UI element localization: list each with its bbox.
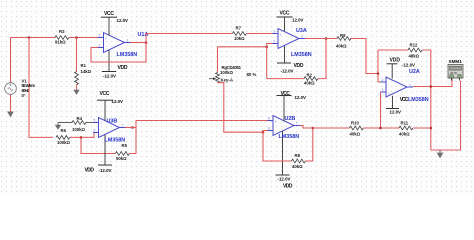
resistor R1 [75,72,79,85]
svg-text:-12.0V: -12.0V [99,168,112,173]
svg-text:48kΩ: 48kΩ [409,53,420,58]
wire main input horizontal [11,37,56,39]
wire XMM1 right pin down to ground row [431,81,461,151]
multimeter XMM1 [448,65,463,81]
wire pot top lead down [217,47,219,73]
svg-text:100kΩ: 100kΩ [220,70,234,75]
wire R12 left lead vertical to U2A inverting input [377,50,379,82]
wire U2A output to XMM1 [413,79,452,87]
power VDD of U3B [98,164,112,166]
svg-text:7: 7 [296,121,298,125]
wire R7 to U3A input [247,33,273,35]
ground at bottom right [437,150,444,158]
svg-text:U3B: U3B [107,119,118,125]
svg-text:LM358N: LM358N [291,52,312,58]
svg-text:1: 1 [409,83,411,87]
svg-text:6: 6 [268,126,270,130]
wire ground to R4 [58,122,72,124]
svg-text:-: - [105,48,106,52]
op-amp U2B [268,96,301,176]
svg-text:VCC: VCC [100,91,110,97]
wire U2A inv input stub horizontal [378,81,381,83]
node junction dot pot top to U3A inv input [265,46,268,49]
node junction dot U2A input column [379,127,382,130]
wire V1 top to main input wire [10,38,12,83]
svg-text:R3: R3 [59,29,65,34]
node junction dot output column crossing [430,85,433,88]
svg-text:5: 5 [268,116,270,120]
svg-text:R12: R12 [410,43,418,48]
svg-text:50kΩ: 50kΩ [116,156,127,161]
svg-text:R6: R6 [61,128,67,133]
svg-text:VDD: VDD [294,63,304,69]
svg-text:1: 1 [127,38,129,42]
op-amp U3A [273,17,306,63]
svg-text:3: 3 [273,29,275,33]
svg-text:7: 7 [122,123,124,127]
svg-text:+: + [280,33,282,37]
svg-text:VCC: VCC [280,11,290,17]
svg-text:+: + [275,120,277,124]
wire U3B output [125,127,136,129]
svg-text:VDD: VDD [390,58,401,64]
op-amp U3B [93,100,125,165]
wire R2 to U3A output [318,39,326,79]
svg-text:40kΩ: 40kΩ [336,43,347,48]
svg-text:U3A: U3A [296,28,307,34]
svg-text:-12.0V: -12.0V [278,177,291,182]
power VCC of U3A [277,16,293,18]
wire U3A output to R9 [305,38,337,40]
svg-text:2: 2 [273,39,275,43]
svg-text:U2B: U2B [285,116,296,122]
wire U3B feedback down to R5 row [81,137,116,153]
node junction dot U3B out [131,126,134,129]
resistor R11 [399,126,413,130]
power VDD of U2B [276,174,290,176]
resistor R3 [55,36,69,40]
svg-text:10kΩ: 10kΩ [234,36,245,41]
op-amp U1A [98,17,131,71]
svg-text:R10: R10 [351,120,359,125]
svg-text:R5: R5 [122,143,128,148]
svg-text:2: 2 [382,78,384,82]
resistor R6 [56,136,70,140]
op-amp U2A [381,64,414,109]
svg-text:12.0V: 12.0V [292,18,304,23]
svg-text:+: + [100,122,102,126]
potentiometer RgCD4051 [209,73,219,83]
svg-text:3: 3 [382,88,384,92]
power VDD of U3A [277,62,291,64]
svg-text:0°: 0° [22,93,26,98]
wire U2A non-inv input vertical down to R10/R11 row [380,92,382,128]
source V1 [5,83,17,95]
svg-text:3: 3 [99,33,101,37]
wire pot top horizontal [218,46,267,48]
wire R2 row [267,78,304,80]
node junction dot feedback tap U3B [80,136,83,139]
wire R4 to U3B input [86,122,99,124]
wire U1A output [131,42,147,44]
svg-text:-12.0V: -12.0V [103,74,116,79]
svg-text:-: - [100,133,101,137]
svg-text:14kΩ: 14kΩ [81,69,92,74]
svg-text:LM358N: LM358N [117,52,138,58]
svg-text:40kΩ: 40kΩ [292,164,303,169]
node junction dot R9 wire joins R12 column [377,72,380,75]
svg-text:R8: R8 [295,153,301,158]
wire R3 to U1A input [69,37,98,39]
svg-text:R4: R4 [77,116,83,121]
wire U2B bottom input from below [263,131,292,162]
svg-text:2: 2 [99,43,101,47]
resistor R5 [116,152,130,156]
resistor R7 [233,32,247,36]
wire R12 right lead to output column [422,50,431,150]
wire R1 lead down [76,38,78,72]
wire R11 to output column [413,127,431,129]
svg-text:R1: R1 [81,63,87,68]
power VDD of U2A (top) [387,63,398,65]
svg-text:100kΩ: 100kΩ [72,127,86,132]
wire R10 to R11 [364,127,400,129]
svg-text:-: - [275,131,276,135]
wire V1 bottom to ground [10,94,12,111]
svg-text:R7: R7 [236,26,242,31]
svg-text:12.0V: 12.0V [295,95,307,100]
resistor R12 [408,48,422,52]
node junction dot U3A out [325,37,328,40]
node junction dot R10/R11 row at output column [430,127,433,130]
wire R1 to ground [76,85,78,90]
wire vertical from node A down to R6 row [29,38,53,138]
node junction dot R8 to output row [312,127,315,130]
svg-text:+: + [105,37,107,41]
wire U2B output row to R10 [300,126,350,129]
svg-text:+: + [388,92,390,96]
svg-text:R2: R2 [307,72,313,77]
wire R6 to U3B input [70,133,99,138]
svg-text:XMM1: XMM1 [449,59,463,64]
svg-text:5: 5 [94,118,96,122]
wire R8 up to U2B output row [306,128,313,161]
wire U3A inv input net vertical [267,44,273,79]
ground under R1 [73,90,79,95]
svg-text:80 %: 80 % [247,72,257,77]
svg-text:U2A: U2A [409,69,420,75]
wire U1A out up to R7 row [146,34,233,43]
svg-text:R11: R11 [401,120,409,125]
svg-text:VCC: VCC [281,91,291,97]
resistor R2 [304,77,318,81]
svg-text:-: - [388,82,389,86]
svg-text:91kΩ: 91kΩ [55,39,66,44]
svg-text:40kΩ: 40kΩ [350,131,361,136]
wire R9 to U2A input [350,39,378,74]
resistor R8 [292,159,306,163]
svg-text:12.0V: 12.0V [117,18,129,23]
power VCC of U2B [277,95,292,97]
svg-text:-12.0V: -12.0V [281,69,294,74]
svg-text:RgCD4051: RgCD4051 [222,65,242,70]
wire pot bottom lead [218,83,264,133]
wire long stage2 input (U3B out to U2B in) [136,121,268,128]
resistor R10 [350,126,364,130]
svg-text:40kΩ: 40kΩ [304,81,315,86]
svg-text:Key-A: Key-A [221,78,233,83]
node junction dot U1A out [145,41,148,44]
svg-text:-: - [280,44,281,48]
power VDD of U1A [102,71,116,73]
wire R12 left lead horizontal [378,49,408,51]
node junction dot pot to U2B inv input [262,131,265,134]
node junction dot R1 tap [75,36,78,39]
resistor R9 [337,37,351,41]
svg-text:LM358N: LM358N [105,137,126,143]
svg-text:VCC: VCC [400,97,409,103]
ground under V1 [7,112,14,118]
svg-text:LM358N: LM358N [408,97,429,103]
svg-text:40kΩ: 40kΩ [399,131,410,136]
svg-text:VCC: VCC [104,11,114,17]
svg-text:-12.0V: -12.0V [402,63,415,68]
svg-text:100kΩ: 100kΩ [57,140,71,145]
svg-text:LM358N: LM358N [279,134,300,140]
power VCC of U2A (bottom) [386,108,399,110]
node junction dot A (input tap) [28,36,31,39]
wire U1A feedback loop [91,43,146,63]
ground at R4 left [55,123,61,130]
power VCC of U1A [101,16,117,18]
svg-text:R9: R9 [340,33,346,38]
svg-text:12.0V: 12.0V [390,110,402,115]
svg-text:12.0V: 12.0V [112,99,124,104]
svg-text:6: 6 [94,128,96,132]
wire R5 up to U3B output [130,128,137,154]
svg-text:VDD: VDD [283,184,293,190]
power VCC of U3B [97,99,113,101]
resistor R4 [72,121,86,125]
svg-text:1: 1 [301,34,303,38]
svg-text:VDD: VDD [85,168,95,174]
svg-text:VDD: VDD [118,65,128,71]
